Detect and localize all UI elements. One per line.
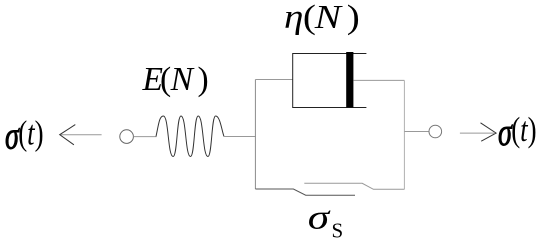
dashpot rod: [353, 79, 404, 81]
svg-text:S: S: [332, 218, 344, 242]
slider upper plate: [304, 183, 404, 189]
arrow right: [460, 132, 494, 134]
arrow left: [61, 134, 102, 136]
svg-text:σ: σ: [308, 197, 331, 236]
terminal circle right: [429, 125, 442, 138]
wire circle to spring: [133, 136, 156, 138]
wire spring to frame: [224, 136, 256, 138]
slider lead left: [255, 189, 355, 195]
terminal circle left: [120, 130, 134, 144]
label eta(N): [284, 0, 360, 36]
svg-text:(t): (t): [511, 109, 536, 148]
label sigma(t) left: [5, 113, 44, 158]
frame right edge: [403, 80, 405, 189]
svg-text:(t): (t): [18, 113, 43, 152]
spring E(N): [156, 116, 224, 157]
label sigma_S: [308, 197, 331, 236]
dashpot cylinder: [293, 54, 367, 108]
svg-text:E(N): E(N): [142, 61, 209, 98]
frame left edge: [254, 80, 256, 190]
wire main right: [404, 131, 429, 133]
dashpot piston: [346, 52, 353, 108]
svg-text:η(N): η(N): [284, 0, 360, 36]
wire top branch left: [255, 79, 292, 81]
label sigma(t) right: [498, 109, 537, 154]
